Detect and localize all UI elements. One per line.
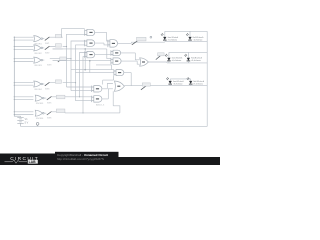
wire row pair 2 xyxy=(14,47,33,50)
LED D1 label xyxy=(168,36,179,42)
svg-text:Green LED when A: Green LED when A xyxy=(173,80,184,83)
junction dots on risers xyxy=(66,46,76,83)
xnor gate X1 xyxy=(34,36,43,42)
bottom ground rail wire xyxy=(21,125,208,127)
AND gate U1 xyxy=(85,29,95,35)
LED group G1 top wire xyxy=(165,31,207,41)
wire U6 out to OR1 xyxy=(121,61,140,64)
xnor gate X6 xyxy=(35,110,44,116)
svg-text:SW6: SW6 xyxy=(47,118,52,120)
battery V1 xyxy=(17,116,23,126)
AND gate U2 xyxy=(85,40,95,46)
watermark black bar left xyxy=(0,154,55,166)
CircuitLab logo text xyxy=(5,156,40,164)
svg-text:SW2: SW2 xyxy=(45,52,50,54)
svg-text:≥ B, off otherwise: ≥ B, off otherwise xyxy=(193,82,203,85)
G1 anode rail wire xyxy=(165,40,207,41)
svg-text:SW3: SW3 xyxy=(47,65,52,67)
svg-text:AND2_5: AND2_5 xyxy=(96,104,105,107)
watermark black bar right xyxy=(119,157,221,165)
wire row6 long run to OR2 xyxy=(65,91,120,113)
svg-text:XNOR6: XNOR6 xyxy=(36,118,44,120)
upper riser wires to AND column xyxy=(62,29,85,113)
wire B1 out to OR2 xyxy=(102,84,113,89)
wire row pair 5 xyxy=(14,97,33,100)
ground node circle xyxy=(36,123,39,127)
switch SW6 xyxy=(47,109,65,120)
LED D5 label xyxy=(173,80,184,86)
LED D2 label xyxy=(193,36,204,42)
AND gate B1 xyxy=(92,86,102,92)
svg-text:≠ B, off otherwise: ≠ B, off otherwise xyxy=(191,59,201,62)
LED D4 (red, G2 right) xyxy=(185,52,191,61)
svg-text:Red LED when A: Red LED when A xyxy=(191,57,202,60)
wire X5 out xyxy=(44,97,92,98)
svg-text:XNOR2: XNOR2 xyxy=(34,53,42,55)
wire B2 inputs xyxy=(76,100,92,102)
AND gate U7 (D3) xyxy=(114,70,124,76)
wire U4 out to switch SW7 xyxy=(118,42,165,43)
LED group G3 top wire xyxy=(170,78,191,80)
LED D4 label xyxy=(191,57,202,63)
xnor gate X2 xyxy=(34,45,43,51)
wire U3 out to U5 xyxy=(95,54,111,56)
svg-text:5 V: 5 V xyxy=(25,121,29,124)
wire X3 out xyxy=(43,59,71,61)
LED D2 (red, G1 right) xyxy=(186,31,192,40)
LED D6 label xyxy=(193,80,204,86)
svg-text:= B, off otherwise: = B, off otherwise xyxy=(172,59,182,62)
svg-text:XNOR3: XNOR3 xyxy=(34,65,42,67)
xnor gate X3 xyxy=(34,57,43,63)
OR gate OR2 (feeds G3) xyxy=(115,81,125,91)
switch SW8 xyxy=(156,53,164,60)
G2 anode rail wire xyxy=(167,61,207,63)
svg-text:XNOR4: XNOR4 xyxy=(34,89,42,91)
wire X1 out xyxy=(43,37,63,38)
svg-text:XNOR5: XNOR5 xyxy=(36,103,44,105)
LED D6 (red, G3 right) xyxy=(187,77,193,84)
wire U1 out to U4 xyxy=(95,32,108,41)
LED D3 label xyxy=(172,57,183,63)
AND gate U5 (D1) xyxy=(111,50,121,56)
svg-text:SW1: SW1 xyxy=(45,43,50,45)
AND gate B2 xyxy=(92,96,102,102)
OR gate OR1 (feeds G2) xyxy=(140,58,149,66)
svg-text:SW4: SW4 xyxy=(45,88,50,90)
wire X6 out xyxy=(44,112,65,113)
svg-text:Red LED when A: Red LED when A xyxy=(193,80,204,83)
wire U7 out down to OR2 output rail xyxy=(103,73,132,86)
mid routing wires xyxy=(53,49,114,73)
switch SW3 xyxy=(47,57,66,67)
wire U2 out to U4 xyxy=(95,43,108,45)
wire row pair 1 xyxy=(14,37,33,40)
wire row pair 3 xyxy=(14,59,33,62)
switch SW5 xyxy=(47,95,65,104)
wire U5 out to OR1 xyxy=(121,53,140,60)
svg-text:< B, off otherwise: < B, off otherwise xyxy=(193,38,203,41)
switch SW7 xyxy=(132,36,152,45)
wire row pair 6 xyxy=(14,112,33,115)
wire B1 inputs xyxy=(67,87,92,91)
LED D3 (green, G2 left) xyxy=(165,52,171,61)
LED group G2 top wire xyxy=(169,51,207,53)
svg-text:SW5: SW5 xyxy=(47,103,52,105)
svg-text:http://circuitlab.com/c/7yvygz: http://circuitlab.com/c/7yvygz6x67S xyxy=(57,157,104,161)
svg-text:Green LED when A: Green LED when A xyxy=(168,36,179,39)
xnor gate X5 xyxy=(35,95,44,101)
AND gate U3 xyxy=(85,51,95,57)
copyright text xyxy=(57,153,108,161)
wire row pair 4 xyxy=(14,83,33,86)
wire X4 out xyxy=(43,83,56,84)
battery V1 label xyxy=(25,118,29,124)
switch SW4 xyxy=(45,80,62,91)
LED D5 (green, G3 left) xyxy=(166,77,172,84)
svg-text:LAB: LAB xyxy=(29,160,37,164)
switch SW1 xyxy=(45,34,62,45)
wire OR1 out to G2 xyxy=(148,61,167,64)
svg-text:< B, off otherwise: < B, off otherwise xyxy=(173,82,183,85)
svg-text:Red LED when A: Red LED when A xyxy=(193,36,204,39)
G3 anode rail wire xyxy=(169,84,207,86)
AND gate U4 (2nd level, feeds G1) xyxy=(108,40,118,47)
switch SW2 xyxy=(45,44,62,55)
AND gate U6 (D2) xyxy=(111,58,121,64)
right vertical rail wire xyxy=(206,31,208,126)
wire X2 out xyxy=(43,47,67,49)
svg-text:> B, off otherwise: > B, off otherwise xyxy=(168,38,178,41)
junction dots on bus xyxy=(14,37,15,116)
LED D1 (green, G1 left) xyxy=(161,31,167,40)
wire OR2 out to G3 xyxy=(124,85,168,87)
switch SW9 xyxy=(141,83,150,90)
svg-text:Green LED when A: Green LED when A xyxy=(172,57,183,60)
xnor gate X4 xyxy=(34,81,43,87)
wire B2 out up to OR2 xyxy=(102,89,113,99)
left input bus xyxy=(14,37,20,117)
junction mid dots xyxy=(84,48,90,70)
